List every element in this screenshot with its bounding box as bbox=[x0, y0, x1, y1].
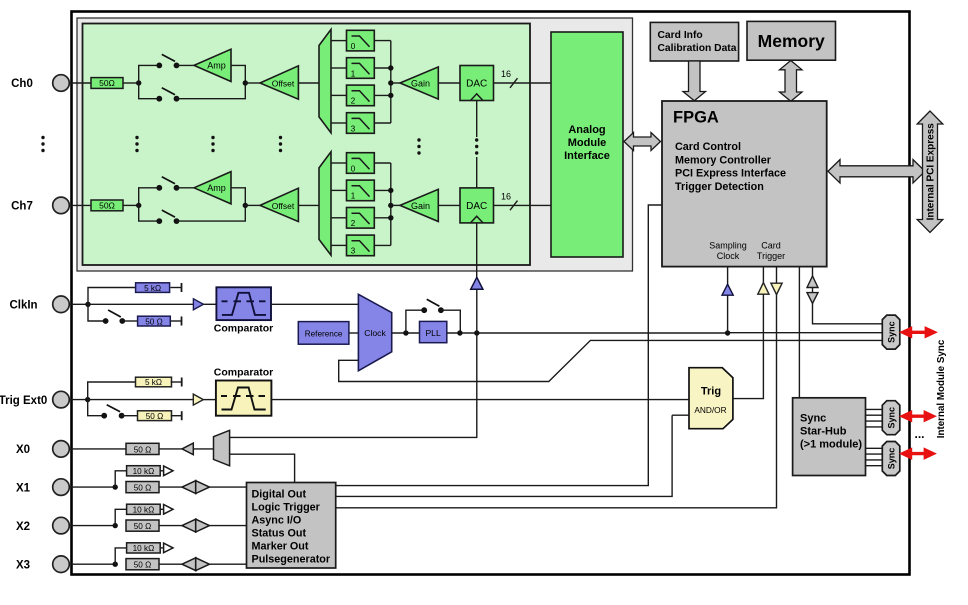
connector X1 bbox=[53, 479, 70, 496]
wire card trigger to digital block bbox=[336, 267, 777, 508]
wire Ch7 to filter 0 bbox=[331, 162, 347, 164]
Card Info Calibration Data box bbox=[650, 22, 738, 61]
svg-text:Clock: Clock bbox=[717, 251, 740, 261]
wire X3 to digital block bbox=[209, 563, 246, 565]
svg-text:...: ... bbox=[914, 427, 924, 441]
wire X3 to buffers bbox=[159, 563, 182, 565]
wire reference to clock bbox=[349, 332, 359, 334]
mux X0 source select bbox=[214, 430, 230, 466]
svg-text:10 kΩ: 10 kΩ bbox=[133, 544, 155, 553]
resistor 50 &#937; X3 bbox=[126, 559, 159, 570]
wire logic trigger input to Trig block bbox=[672, 414, 689, 416]
wire Ch7 lower branch bbox=[139, 205, 160, 221]
wire X0 mux lower input bbox=[230, 454, 295, 482]
svg-text:Gain: Gain bbox=[411, 78, 430, 88]
bus slash Ch7 bbox=[510, 201, 518, 211]
wire X2 to 10k bbox=[115, 509, 126, 525]
svg-text:Digital Out: Digital Out bbox=[252, 488, 307, 500]
wire digital out to FPGA bbox=[336, 205, 662, 486]
op-amp Amp Ch0 bbox=[194, 49, 231, 81]
wire star-hub sync3 line 2 bbox=[866, 459, 883, 461]
wire DAC clock riser bbox=[476, 289, 478, 437]
wire clock output bbox=[392, 332, 420, 334]
wire Ch7 input bbox=[69, 204, 91, 206]
resistor 10 k&#937; X2 bbox=[127, 504, 161, 514]
resistor 10 k&#937; X3 bbox=[127, 543, 161, 553]
svg-text:Amp: Amp bbox=[207, 183, 226, 193]
node TrigExt junction bbox=[85, 397, 90, 402]
wire PLL bypass down bbox=[441, 310, 460, 333]
svg-text:Calibration Data: Calibration Data bbox=[658, 43, 737, 54]
connector Ch0 bbox=[53, 75, 70, 92]
svg-text:2: 2 bbox=[351, 97, 356, 106]
buffer X1 bidirectional bbox=[182, 481, 196, 494]
arrow AMI to FPGA bidirectional bbox=[624, 133, 661, 151]
wire star-hub sync3 line 0 bbox=[866, 447, 883, 449]
svg-text:Clock: Clock bbox=[364, 328, 386, 338]
svg-text:Sync: Sync bbox=[886, 407, 896, 429]
svg-text:50 Ω: 50 Ω bbox=[134, 561, 152, 570]
wire Ch0 switch to amp bbox=[177, 64, 195, 66]
wire Ch7 DAC data bus bbox=[494, 204, 552, 206]
buffer X3 bidirectional bbox=[182, 558, 196, 571]
switch ClkIn 50R termination bbox=[103, 310, 126, 324]
connector X2 bbox=[53, 517, 70, 534]
node Ch0 input junction bbox=[136, 80, 141, 85]
svg-text:X2: X2 bbox=[16, 521, 30, 533]
buffer ClkIn bbox=[193, 299, 203, 310]
node Ch7 bus junction 3 bbox=[388, 215, 393, 220]
svg-text:10 kΩ: 10 kΩ bbox=[133, 467, 155, 476]
svg-text:50Ω: 50Ω bbox=[99, 201, 115, 211]
resistor 50&#937; Ch7 bbox=[91, 200, 123, 211]
node Ch7 input junction bbox=[136, 203, 141, 208]
arrowhead FPGA sync down bbox=[807, 293, 818, 304]
filter 2 Ch0 bbox=[347, 85, 375, 106]
svg-text:PCI Express Interface: PCI Express Interface bbox=[675, 168, 786, 180]
svg-text:Ch0: Ch0 bbox=[11, 78, 33, 90]
wire filter 2 Ch7 output bbox=[374, 217, 391, 219]
switch Ch0 bypass path bbox=[156, 88, 179, 102]
wire Ch7 to filter 1 bbox=[331, 189, 347, 191]
node Ch0 bus junction 2 bbox=[388, 80, 393, 85]
svg-text:Trigger: Trigger bbox=[757, 251, 785, 261]
wire Ch0 DAC data bus bbox=[494, 82, 552, 84]
resistor 50&#937; Ch0 bbox=[91, 78, 123, 89]
resistor 50 &#937; ClkIn bbox=[138, 316, 171, 326]
wire X0 resistor to buffer bbox=[159, 448, 182, 450]
wire TrigExt input bbox=[69, 399, 87, 401]
wire buffer to trig comparator bbox=[203, 399, 216, 401]
wire X0 bbox=[69, 448, 126, 450]
red arrow Sync 3 bbox=[900, 448, 936, 459]
svg-text:5 kΩ: 5 kΩ bbox=[144, 284, 161, 293]
wire Ch0 lower branch bbox=[139, 83, 160, 99]
svg-text:50 Ω: 50 Ω bbox=[134, 522, 152, 531]
terminator ClkIn 5k bbox=[171, 287, 182, 289]
svg-text:Offset: Offset bbox=[272, 201, 295, 211]
svg-text:16: 16 bbox=[501, 191, 511, 201]
node Ch7 bus junction 2 bbox=[388, 203, 393, 208]
svg-text:Memory Controller: Memory Controller bbox=[675, 154, 772, 166]
svg-text:Gain: Gain bbox=[411, 201, 430, 211]
switch Ch0 amp path bbox=[156, 54, 179, 68]
comparator TrigExt bbox=[216, 381, 272, 416]
arrowhead card trigger out yellow bbox=[771, 283, 782, 294]
svg-text:16: 16 bbox=[501, 69, 511, 79]
wire ClkIn input bbox=[69, 303, 88, 305]
wire filter 1 Ch0 output bbox=[374, 67, 391, 69]
connector X0 bbox=[53, 441, 70, 458]
node ClkIn junction bbox=[85, 302, 90, 307]
wire star-hub sync2 line 3 bbox=[866, 426, 883, 428]
wire DAC clock line Ch0 bbox=[476, 101, 478, 138]
wire filter 3 Ch0 output bbox=[374, 122, 391, 124]
wire X2 10k to buffer bbox=[160, 508, 163, 510]
wire star-hub sync2 line 0 bbox=[866, 408, 883, 410]
wire ClkIn to 50R switch bbox=[88, 304, 106, 321]
DAC Ch0 bbox=[460, 66, 494, 101]
filter 3 Ch0 bbox=[347, 113, 375, 134]
connector Sync 1 bbox=[882, 315, 900, 349]
wire X2 to buffers bbox=[159, 525, 182, 527]
filter 3 Ch7 bbox=[347, 235, 375, 256]
wire Ch0 to offset bbox=[245, 82, 260, 84]
svg-text:1: 1 bbox=[351, 192, 356, 201]
wire clock to X0 mux bbox=[230, 436, 478, 438]
svg-text:Amp: Amp bbox=[207, 61, 226, 71]
wire X1 bbox=[69, 486, 115, 488]
filter 1 Ch7 bbox=[347, 180, 375, 201]
wire filter 0 Ch0 output bbox=[374, 40, 391, 42]
filter 1 Ch0 bbox=[347, 58, 375, 79]
resistor 50 &#937; X2 bbox=[126, 520, 159, 531]
svg-text:X1: X1 bbox=[16, 482, 31, 494]
wire Trig output to FPGA bbox=[733, 267, 764, 399]
svg-text:Card Control: Card Control bbox=[675, 141, 741, 153]
buffer X3 10k output bbox=[164, 543, 173, 553]
svg-text:Logic Trigger: Logic Trigger bbox=[252, 501, 321, 513]
wire Ch7 to switch node bbox=[123, 204, 139, 206]
wire X0 buffer to mux bbox=[193, 448, 213, 450]
terminator TrigExt 50R bbox=[171, 415, 182, 417]
bus slash Ch0 bbox=[510, 78, 518, 88]
connector ClkIn bbox=[53, 296, 70, 313]
svg-text:Sampling: Sampling bbox=[709, 241, 747, 251]
switch PLL bypass bbox=[421, 299, 443, 313]
arrowhead sampling clock blue bbox=[722, 284, 733, 295]
Memory box bbox=[747, 21, 836, 60]
wire Ch0 to filter 0 bbox=[331, 40, 347, 42]
wire FPGA sync bidirectional bbox=[813, 267, 883, 324]
wire Ch7 bypass bbox=[177, 205, 246, 221]
connector Ch7 bbox=[53, 197, 70, 214]
node Ch0 bus junction 1 bbox=[388, 65, 393, 70]
wire FPGA sampling clock drop bbox=[727, 267, 729, 333]
op-amp Offset Ch0 bbox=[260, 66, 298, 99]
svg-text:DAC: DAC bbox=[466, 79, 487, 90]
wire X1 10k to buffer bbox=[160, 470, 163, 472]
wire filter 3 Ch7 output bbox=[374, 244, 391, 246]
svg-text:(>1 module): (>1 module) bbox=[800, 439, 862, 451]
svg-text:Internal PCI Express: Internal PCI Express bbox=[926, 123, 937, 221]
arrow Memory to FPGA bidirectional bbox=[780, 61, 803, 102]
svg-text:Module: Module bbox=[568, 137, 607, 149]
op-amp Offset Ch7 bbox=[260, 188, 298, 221]
svg-text:5 kΩ: 5 kΩ bbox=[145, 378, 162, 387]
filter demux Ch7 bbox=[319, 152, 331, 255]
wire Ch0 upper branch bbox=[139, 65, 160, 83]
svg-text:3: 3 bbox=[351, 247, 356, 256]
svg-text:DAC: DAC bbox=[466, 201, 487, 212]
op-amp Amp Ch7 bbox=[194, 172, 231, 204]
wire PLL output bbox=[447, 332, 728, 334]
wire X1 to digital block bbox=[209, 486, 246, 488]
wire Ch7 upper branch bbox=[139, 188, 160, 206]
wire Ch7 amp output bbox=[231, 188, 245, 206]
op-amp Gain Ch7 bbox=[400, 189, 438, 221]
wire Ch0 bypass bbox=[177, 83, 246, 99]
wire TrigExt to buffer bbox=[88, 399, 194, 401]
svg-text:50 Ω: 50 Ω bbox=[134, 484, 152, 493]
node X3 junction bbox=[113, 562, 118, 567]
connector Sync 2 bbox=[882, 401, 900, 435]
wire X3 10k to buffer bbox=[160, 547, 163, 549]
svg-text:50 Ω: 50 Ω bbox=[145, 317, 163, 326]
svg-text:3: 3 bbox=[351, 124, 356, 133]
red arrow Sync 1 bbox=[900, 327, 937, 338]
wire filter 1 Ch7 output bbox=[374, 189, 391, 191]
wire star-hub sync2 line 1 bbox=[866, 414, 883, 416]
svg-text:Async I/O: Async I/O bbox=[252, 514, 302, 526]
wire Ch0 to filter 2 bbox=[331, 94, 347, 96]
svg-text:Sync: Sync bbox=[800, 413, 826, 425]
wire comparator to clock bbox=[271, 303, 358, 305]
wire X2 to digital block bbox=[209, 525, 246, 527]
filter demux Ch0 bbox=[319, 29, 331, 132]
node PLL out junction bbox=[457, 330, 462, 335]
svg-text:Analog: Analog bbox=[568, 124, 605, 136]
filter 2 Ch7 bbox=[347, 208, 375, 229]
ellipsis channels in module 1 bbox=[135, 136, 138, 139]
op-amp Gain Ch0 bbox=[400, 67, 438, 99]
FPGA U1 bbox=[662, 101, 827, 267]
wire PLL bypass up bbox=[406, 310, 424, 333]
node Ch7 amp output junction bbox=[243, 203, 248, 208]
node Ch0 amp output junction bbox=[243, 80, 248, 85]
svg-text:Star-Hub: Star-Hub bbox=[800, 426, 847, 438]
wire Ch7 gain to DAC bbox=[438, 204, 460, 206]
wire filter 0 Ch7 output bbox=[374, 162, 391, 164]
wire Ch7 filter bus bbox=[390, 163, 392, 245]
node clock to FPGA junction bbox=[725, 330, 730, 335]
arrow Card Info to FPGA bbox=[683, 61, 706, 101]
wire TrigExt to 5k bbox=[88, 382, 136, 400]
wire clock feedback bbox=[339, 340, 883, 381]
svg-text:Sync: Sync bbox=[886, 321, 896, 343]
resistor 5 k&#937; ClkIn bbox=[136, 283, 170, 293]
resistor 50 &#937; X1 bbox=[126, 482, 159, 493]
wire Ch0 offset to filter mux bbox=[298, 82, 319, 84]
arrowhead FPGA sync up bbox=[807, 276, 818, 288]
wire Ch7 bus to gain bbox=[391, 204, 400, 206]
wire TrigExt to 50R switch bbox=[88, 400, 105, 416]
wire DAC clock line mid bbox=[476, 157, 478, 188]
Reference box bbox=[298, 322, 349, 345]
wire Ch7 switch to amp bbox=[177, 187, 195, 189]
wire Ch0 amp output bbox=[231, 65, 245, 83]
node sampling clock junction bbox=[474, 330, 479, 335]
wire Ch0 filter bus bbox=[390, 41, 392, 123]
ellipsis channels in module 2 bbox=[211, 136, 214, 139]
Sync Star-Hub block bbox=[793, 398, 866, 476]
svg-text:50Ω: 50Ω bbox=[99, 78, 115, 88]
ellipsis channels in module 3 bbox=[279, 136, 282, 139]
node X1 junction bbox=[113, 484, 118, 489]
wire Ch0 gain to DAC bbox=[438, 82, 460, 84]
wire FPGA to star-hub bbox=[798, 267, 800, 398]
buffer X2 10k output bbox=[164, 505, 173, 515]
switch Ch7 amp path bbox=[156, 177, 179, 191]
svg-text:10 kΩ: 10 kΩ bbox=[133, 505, 155, 514]
Clock mux bbox=[358, 294, 391, 371]
DAC Ch7 bbox=[460, 188, 494, 223]
wire X3 to 10k bbox=[115, 548, 126, 564]
svg-text:Sync: Sync bbox=[886, 448, 896, 470]
terminator TrigExt 5k bbox=[171, 381, 182, 383]
wire Ch0 to switch node bbox=[123, 82, 139, 84]
svg-text:X3: X3 bbox=[16, 559, 30, 571]
wire star-hub sync3 line 1 bbox=[866, 453, 883, 455]
ellipsis channels clock line bbox=[475, 138, 478, 141]
svg-text:Status Out: Status Out bbox=[252, 527, 307, 539]
wire Ch0 to filter 3 bbox=[331, 122, 347, 124]
wire Ch7 to offset bbox=[245, 204, 260, 206]
svg-text:50 Ω: 50 Ω bbox=[146, 412, 164, 421]
filter 0 Ch7 bbox=[347, 153, 375, 174]
wire star-hub sync3 line 3 bbox=[866, 465, 883, 467]
svg-text:Marker Out: Marker Out bbox=[252, 541, 309, 553]
Trig AND/OR block bbox=[689, 368, 733, 429]
PLL box bbox=[420, 321, 447, 342]
svg-text:1: 1 bbox=[351, 69, 356, 78]
wire Ch7 to filter 2 bbox=[331, 217, 347, 219]
svg-text:Card: Card bbox=[761, 241, 781, 251]
svg-text:AND/OR: AND/OR bbox=[694, 405, 726, 415]
wire filter 2 Ch0 output bbox=[374, 94, 391, 96]
svg-text:Comparator: Comparator bbox=[214, 367, 274, 379]
Digital IO block bbox=[247, 483, 336, 569]
node Ch7 bus junction 1 bbox=[388, 188, 393, 193]
svg-text:0: 0 bbox=[351, 42, 356, 51]
switch TrigExt 50R termination bbox=[101, 405, 124, 419]
wire ClkIn to buffer bbox=[88, 303, 193, 305]
wire star-hub sync2 line 2 bbox=[866, 420, 883, 422]
svg-text:Ch7: Ch7 bbox=[11, 201, 33, 213]
wire TrigExt switch to 50R bbox=[122, 415, 138, 417]
svg-text:Offset: Offset bbox=[272, 78, 295, 88]
wire buffer to comparator bbox=[203, 303, 216, 305]
svg-text:Trig: Trig bbox=[701, 386, 721, 398]
svg-text:2: 2 bbox=[351, 219, 356, 228]
wire Ch0 bus to gain bbox=[391, 82, 400, 84]
wire Ch7 to filter 3 bbox=[331, 244, 347, 246]
ellipsis channels in module 4 bbox=[417, 138, 420, 141]
Internal PCI Express arrow bbox=[917, 111, 943, 233]
svg-text:Internal Module Sync: Internal Module Sync bbox=[936, 339, 947, 438]
wire logic trigger to Trig block riser bbox=[336, 415, 672, 496]
arrowhead trigger to FPGA yellow bbox=[758, 283, 769, 295]
comparator ClkIn bbox=[216, 287, 271, 320]
connector X3 bbox=[53, 556, 70, 573]
buffer TrigExt bbox=[193, 394, 203, 405]
wire Ch7 offset to filter mux bbox=[298, 204, 319, 206]
wire Ch0 input bbox=[69, 82, 91, 84]
wire clock to sync bbox=[728, 332, 883, 334]
svg-text:Reference: Reference bbox=[305, 329, 343, 338]
node clock out junction bbox=[403, 330, 408, 335]
node X2 junction bbox=[113, 523, 118, 528]
resistor 5 k&#937; TrigExt bbox=[136, 377, 172, 387]
analog module green area bbox=[83, 24, 531, 266]
svg-text:PLL: PLL bbox=[425, 328, 441, 338]
wire DAC clock line down bbox=[476, 223, 478, 277]
connector Sync 3 bbox=[882, 442, 900, 476]
wire ClkIn to 5k bbox=[88, 288, 136, 305]
switch Ch7 bypass path bbox=[156, 210, 179, 224]
wire X2 bbox=[69, 525, 115, 527]
wire X1 to buffers bbox=[159, 486, 182, 488]
ellipsis channels left bbox=[41, 136, 44, 139]
resistor 50 &#937; TrigExt bbox=[138, 411, 172, 421]
wire X3 bbox=[69, 563, 115, 565]
svg-text:Card Info: Card Info bbox=[658, 30, 703, 41]
arrowhead DAC clock blue bbox=[471, 277, 483, 289]
svg-text:Pulsegenerator: Pulsegenerator bbox=[252, 554, 331, 566]
svg-text:Memory: Memory bbox=[758, 31, 825, 51]
arrow FPGA to Internal PCI Express bidirectional bbox=[828, 160, 925, 183]
resistor 10 k&#937; X1 bbox=[127, 466, 161, 476]
Analog Module Interface U-AMI bbox=[551, 32, 623, 257]
wire trig comparator to Trig block bbox=[271, 399, 689, 401]
buffer X2 bidirectional bbox=[182, 519, 196, 532]
svg-text:X0: X0 bbox=[16, 444, 30, 456]
resistor 50 &#937; X0 bbox=[126, 443, 159, 454]
red arrow Sync 2 bbox=[900, 411, 936, 422]
buffer X1 10k output bbox=[164, 466, 173, 476]
svg-text:ClkIn: ClkIn bbox=[9, 300, 37, 312]
analog module container bbox=[77, 18, 633, 271]
terminator ClkIn 50R bbox=[171, 320, 182, 322]
svg-text:Comparator: Comparator bbox=[214, 323, 274, 335]
wire Ch0 to filter 1 bbox=[331, 67, 347, 69]
wire X1 to 10k bbox=[115, 471, 126, 487]
filter 0 Ch0 bbox=[347, 30, 375, 51]
svg-text:0: 0 bbox=[351, 164, 356, 173]
connector Trig Ext0 bbox=[53, 391, 70, 408]
svg-text:FPGA: FPGA bbox=[673, 109, 719, 127]
svg-text:Interface: Interface bbox=[564, 150, 610, 162]
svg-text:Trig Ext0: Trig Ext0 bbox=[0, 395, 47, 407]
buffer X0 output bbox=[182, 443, 193, 455]
wire ClkIn switch to 50R bbox=[122, 320, 137, 322]
node Ch0 bus junction 3 bbox=[388, 93, 393, 98]
svg-text:Trigger Detection: Trigger Detection bbox=[675, 181, 764, 193]
svg-text:50 Ω: 50 Ω bbox=[134, 445, 152, 454]
